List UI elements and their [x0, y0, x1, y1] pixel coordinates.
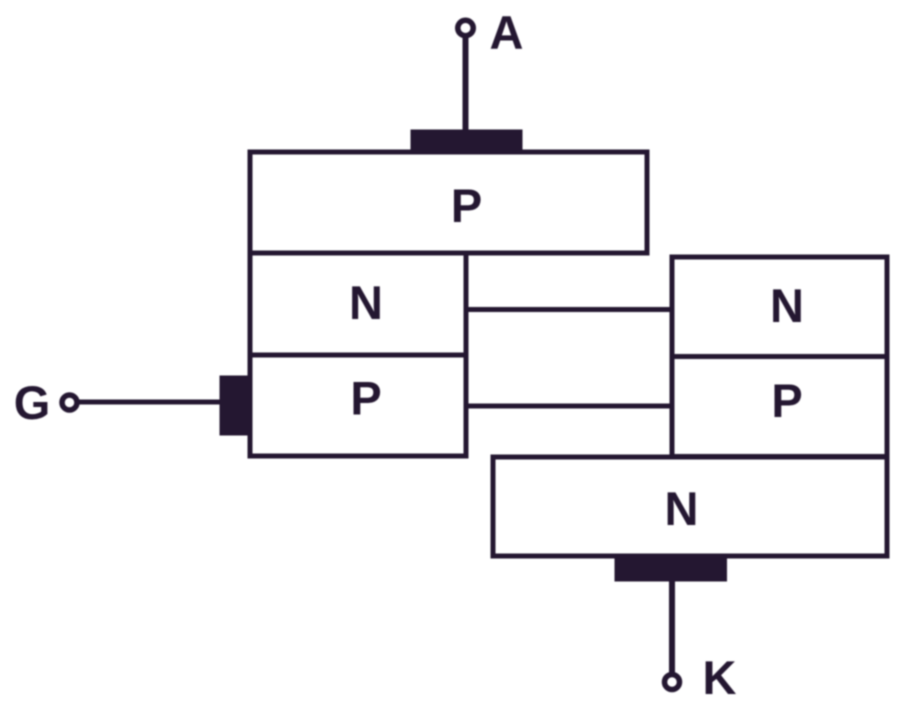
svg-text:P: P — [451, 179, 482, 232]
terminal K circle — [665, 675, 680, 690]
terminal A circle — [458, 20, 474, 36]
terminal G circle — [62, 395, 77, 410]
cathode contact bar — [615, 554, 728, 582]
svg-text:N: N — [770, 279, 804, 332]
gate contact bar — [220, 376, 252, 436]
region N1 (left N layer) — [250, 253, 466, 355]
region P3 (right P layer) — [672, 357, 887, 457]
region N3 (bottom cathode N layer) — [493, 457, 887, 556]
svg-text:K: K — [703, 651, 737, 704]
svg-text:G: G — [14, 376, 51, 429]
wire gate lead — [79, 400, 221, 405]
wire anode lead — [463, 33, 469, 131]
svg-text:N: N — [665, 482, 699, 535]
wire cathode lead — [669, 581, 675, 675]
region P2 (left gate P layer) — [250, 355, 466, 456]
svg-text:P: P — [350, 372, 381, 425]
wire P2-P3 — [466, 404, 672, 409]
anode contact bar — [411, 130, 523, 155]
svg-text:P: P — [771, 374, 802, 427]
svg-text:A: A — [490, 6, 524, 59]
wire N1-N2 — [466, 307, 672, 312]
region N2 (right N layer) — [672, 257, 887, 357]
region P1 (top anode P layer) — [250, 152, 647, 253]
svg-text:N: N — [349, 276, 383, 329]
